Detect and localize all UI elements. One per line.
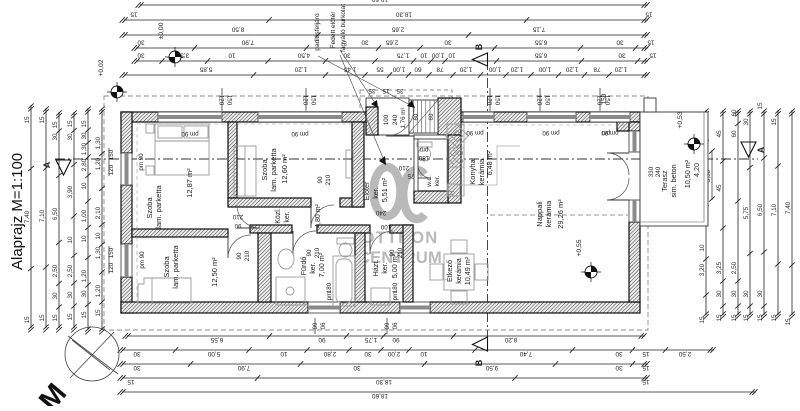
svg-text:30: 30 — [743, 290, 750, 298]
room label Szoba 12,50 — [162, 244, 219, 288]
door utility — [370, 231, 393, 254]
window kitchen top — [463, 112, 494, 122]
svg-text:90: 90 — [234, 222, 241, 229]
svg-text:30: 30 — [616, 38, 624, 45]
svg-text:7,15: 7,15 — [532, 25, 545, 32]
svg-text:150: 150 — [108, 149, 115, 160]
svg-text:Étkező: Étkező — [445, 260, 454, 282]
svg-text:kerámia: kerámia — [544, 200, 553, 228]
svg-text:10: 10 — [67, 236, 74, 244]
wall exterior left lower — [121, 277, 132, 313]
dim line left 5 — [95, 106, 105, 334]
svg-text:Szoba: Szoba — [162, 256, 171, 278]
bathroom shower — [276, 277, 305, 305]
svg-text:6,55: 6,55 — [210, 336, 223, 343]
svg-text:35: 35 — [368, 87, 375, 94]
room label Konyha — [468, 150, 494, 185]
room label Szoba 12,60 — [260, 147, 289, 191]
svg-text:10,50 m²: 10,50 m² — [683, 159, 692, 188]
washing machine utility — [371, 288, 390, 305]
wall utility east — [403, 225, 413, 302]
wall exterior top-right corner block — [617, 122, 640, 131]
svg-text:210: 210 — [398, 164, 409, 171]
svg-text:pm 90: pm 90 — [139, 251, 146, 269]
wall exterior bottom right segment — [430, 302, 640, 313]
svg-text:45: 45 — [716, 130, 723, 138]
svg-text:15: 15 — [52, 121, 59, 129]
svg-text:3,20: 3,20 — [699, 263, 706, 276]
dashed finish line bedroom1 — [137, 124, 228, 229]
elevation marker — [581, 262, 601, 282]
svg-text:100: 100 — [380, 223, 391, 230]
wardrobe bedroom3 — [138, 278, 191, 303]
section marker B bottom — [473, 337, 488, 366]
terrace inner line — [640, 112, 704, 222]
room label Etkezo — [445, 256, 472, 285]
svg-text:15: 15 — [757, 102, 764, 110]
svg-text:240: 240 — [392, 114, 399, 125]
svg-text:Alaprajz M=1:100: Alaprajz M=1:100 — [9, 153, 26, 270]
door dim 60/90 — [383, 318, 398, 334]
elevation marker — [165, 47, 185, 67]
window dim 120/150 — [596, 88, 611, 111]
svg-text:120: 120 — [108, 164, 115, 175]
svg-text:2,65: 2,65 — [391, 25, 404, 32]
wc toilet — [417, 142, 432, 161]
svg-text:60: 60 — [414, 65, 422, 72]
svg-text:1,00: 1,00 — [81, 209, 88, 222]
room label Hazt — [371, 253, 399, 278]
section line A-A — [55, 158, 758, 160]
svg-text:Közl.: Közl. — [275, 208, 282, 224]
svg-text:1,00: 1,00 — [431, 51, 444, 58]
terrace opening dim 3,30 — [705, 148, 715, 201]
svg-text:w.c.: w.c. — [426, 175, 433, 188]
svg-text:lam. parketta: lam. parketta — [154, 184, 163, 228]
window dim 120/150 — [302, 88, 317, 111]
svg-text:30: 30 — [81, 132, 88, 140]
svg-text:30: 30 — [716, 290, 723, 298]
svg-text:30: 30 — [67, 291, 74, 299]
svg-text:2,50: 2,50 — [731, 261, 738, 274]
svg-text:padlásfeljáró: padlásfeljáró — [314, 13, 321, 51]
svg-text:8,20: 8,20 — [504, 336, 517, 343]
section marker A left — [42, 160, 71, 175]
wall bedroom2 south east part — [340, 198, 364, 207]
door bedroom2 — [311, 205, 334, 228]
svg-text:1,20: 1,20 — [294, 65, 307, 72]
svg-text:12,60 m²: 12,60 m² — [280, 154, 289, 184]
svg-text:6,55: 6,55 — [534, 38, 547, 45]
wall wc south — [414, 191, 448, 203]
window label pm 90 left2 — [139, 251, 146, 269]
svg-text:35: 35 — [396, 87, 403, 94]
svg-text:30: 30 — [137, 38, 145, 45]
roof eaves dashed outline — [104, 96, 648, 330]
svg-text:Szoba: Szoba — [260, 159, 269, 181]
dim line right 6 — [771, 108, 781, 321]
svg-text:Fürdő: Fürdő — [299, 257, 308, 276]
wall exterior right top stub — [629, 122, 640, 131]
svg-text:2,00: 2,00 — [387, 350, 400, 357]
bed bedroom1 — [146, 124, 209, 175]
porch roof dashed — [360, 90, 452, 112]
svg-text:210: 210 — [244, 250, 251, 261]
door entry — [386, 108, 414, 136]
room label Elotter — [362, 177, 389, 202]
svg-text:7,40: 7,40 — [785, 201, 792, 214]
dim line bottom 4 — [118, 375, 650, 385]
svg-text:7,10: 7,10 — [39, 209, 46, 222]
room label Szoba 12,87 — [145, 168, 194, 229]
svg-text:3,25: 3,25 — [716, 261, 723, 274]
dim line right 7 — [785, 108, 795, 325]
svg-text:2,50: 2,50 — [67, 264, 74, 277]
svg-text:100: 100 — [383, 114, 390, 125]
svg-text:18,60: 18,60 — [372, 392, 388, 399]
svg-text:1,76 m²: 1,76 m² — [400, 108, 407, 129]
elevation marker — [684, 134, 704, 154]
door wc — [418, 165, 431, 178]
svg-text:30: 30 — [137, 51, 145, 58]
svg-text:15: 15 — [642, 364, 650, 371]
svg-text:18,30: 18,30 — [396, 10, 412, 17]
wall wc west thin — [414, 135, 418, 191]
svg-text:120: 120 — [302, 95, 309, 106]
svg-text:6,50: 6,50 — [52, 207, 59, 220]
elevation marker — [107, 82, 127, 102]
svg-text:2,65: 2,65 — [385, 38, 398, 45]
dim line bottom 3 — [118, 361, 650, 371]
svg-text:15: 15 — [24, 116, 31, 124]
svg-text:15: 15 — [95, 309, 102, 317]
svg-text:pm 90: pm 90 — [542, 129, 560, 136]
svg-text:30: 30 — [364, 350, 372, 357]
svg-text:210: 210 — [325, 174, 332, 185]
svg-text:ker.: ker. — [434, 175, 441, 186]
room label WC — [426, 175, 441, 188]
label padlasfeljaro — [314, 13, 415, 108]
svg-text:210: 210 — [397, 247, 404, 258]
svg-text:150: 150 — [494, 95, 501, 106]
wardrobe bedroom2 — [234, 146, 353, 196]
wall exterior bottom left segment — [121, 302, 308, 313]
svg-text:15: 15 — [649, 51, 657, 58]
svg-text:60: 60 — [413, 113, 420, 120]
entry south opening labels — [375, 209, 391, 230]
window label pm 90 left1 — [138, 153, 145, 171]
dim line right 3 — [731, 108, 741, 321]
dim line right 4 — [743, 108, 753, 321]
svg-text:Fedett előtér: Fedett előtér — [330, 11, 337, 49]
svg-text:180: 180 — [326, 282, 333, 293]
room label Kozl — [275, 203, 322, 227]
svg-text:45: 45 — [716, 184, 723, 192]
svg-text:fagyálló burkolat: fagyálló burkolat — [340, 4, 347, 52]
porch pier right — [438, 98, 461, 135]
window dining right lower — [629, 200, 640, 222]
wall exterior left upper — [121, 112, 132, 153]
kitchen counter — [446, 124, 520, 196]
svg-text:1,20: 1,20 — [565, 65, 578, 72]
svg-text:Házt.: Házt. — [371, 260, 380, 277]
section line B-B — [487, 60, 489, 345]
dashed finish line living — [461, 124, 629, 126]
svg-text:15: 15 — [645, 10, 653, 17]
door terrace lower leaf — [607, 178, 629, 200]
svg-text:12,87 m²: 12,87 m² — [185, 168, 194, 198]
svg-text:Konyha: Konyha — [468, 158, 477, 184]
svg-text:30: 30 — [353, 364, 361, 371]
svg-text:B: B — [474, 359, 484, 366]
svg-text:15: 15 — [130, 10, 138, 17]
svg-text:1,30: 1,30 — [95, 246, 102, 259]
svg-text:90: 90 — [392, 336, 400, 343]
wall corridor south 3 — [390, 225, 413, 233]
svg-text:30: 30 — [743, 118, 750, 126]
svg-text:30: 30 — [615, 364, 623, 371]
dim line top 4 7,90 — [132, 38, 655, 50]
svg-text:210: 210 — [314, 247, 321, 258]
svg-text:60: 60 — [311, 323, 318, 330]
svg-text:180: 180 — [392, 282, 399, 293]
svg-text:60: 60 — [383, 323, 390, 330]
svg-text:15: 15 — [81, 311, 88, 319]
svg-text:sim. beton: sim. beton — [669, 164, 678, 197]
svg-text:6,55: 6,55 — [534, 51, 547, 58]
svg-text:15: 15 — [642, 378, 650, 385]
svg-text:240: 240 — [655, 166, 662, 177]
svg-text:60: 60 — [731, 130, 738, 138]
window utility bottom — [400, 302, 430, 313]
dim line top 2 18,30 — [120, 10, 653, 22]
porch labels — [383, 108, 435, 129]
svg-text:150: 150 — [544, 95, 551, 106]
svg-text:30: 30 — [361, 38, 369, 45]
door label bedroom1 — [232, 213, 243, 229]
svg-text:8,50: 8,50 — [231, 25, 244, 32]
svg-text:60: 60 — [731, 109, 738, 117]
section marker B top — [473, 43, 488, 66]
svg-text:30: 30 — [133, 350, 141, 357]
dim line left 3 — [67, 110, 77, 332]
svg-text:30: 30 — [757, 290, 764, 298]
svg-text:90: 90 — [389, 249, 396, 256]
wall bedroom1/bedroom2 — [228, 122, 237, 198]
dim line left 1 — [39, 106, 49, 332]
svg-text:6,50: 6,50 — [757, 203, 764, 216]
svg-text:1,00: 1,00 — [538, 65, 551, 72]
svg-text:15: 15 — [699, 316, 706, 324]
window bedroom3 left — [121, 244, 132, 277]
dim line left 0 — [24, 103, 34, 332]
svg-text:pm 90: pm 90 — [466, 129, 484, 136]
svg-text:H: H — [450, 191, 456, 195]
svg-text:ker.: ker. — [380, 262, 389, 274]
bathroom washbasin — [278, 249, 294, 269]
bathroom toilet — [337, 238, 354, 257]
svg-text:1,00: 1,00 — [392, 65, 405, 72]
svg-text:+0,55: +0,55 — [576, 239, 583, 256]
svg-text:30: 30 — [615, 350, 623, 357]
svg-text:180: 180 — [418, 154, 429, 161]
svg-text:30: 30 — [618, 51, 626, 58]
svg-text:4,50: 4,50 — [297, 51, 310, 58]
door label utility — [389, 247, 404, 258]
svg-text:15: 15 — [39, 314, 46, 322]
svg-text:15: 15 — [81, 120, 88, 128]
svg-text:120: 120 — [218, 95, 225, 106]
svg-text:ker.: ker. — [308, 262, 317, 274]
porch width labels 35 15 35 — [368, 87, 403, 94]
svg-text:29,26 m²: 29,26 m² — [556, 199, 565, 229]
dim line top 5 3,30 — [132, 51, 657, 63]
dining table and chairs — [430, 240, 488, 304]
compass north symbol — [65, 327, 119, 381]
svg-text:7,10: 7,10 — [771, 203, 778, 216]
svg-text:30: 30 — [444, 38, 452, 45]
label fagyallo burkolat — [340, 4, 378, 108]
svg-text:15: 15 — [647, 38, 655, 45]
window dim 120/150 — [218, 88, 233, 111]
svg-text:ker.: ker. — [284, 211, 291, 222]
svg-text:18,30: 18,30 — [376, 378, 392, 385]
door dim 60/90 — [311, 318, 326, 334]
svg-text:15: 15 — [39, 116, 46, 124]
wall exterior right lower — [629, 222, 640, 302]
svg-text:10: 10 — [420, 51, 428, 58]
svg-text:15: 15 — [771, 314, 778, 322]
svg-text:90: 90 — [317, 176, 324, 183]
dim line top 3 8,50 — [120, 25, 650, 37]
room label Nappali — [535, 199, 565, 229]
svg-text:5,85: 5,85 — [199, 65, 212, 72]
wall wc north thin — [414, 135, 448, 139]
svg-text:3,90: 3,90 — [67, 185, 74, 198]
svg-text:1,00: 1,00 — [488, 65, 501, 72]
svg-text:A: A — [756, 146, 766, 153]
wall bedroom1/bedroom3 — [132, 229, 228, 237]
door label bathroom — [306, 247, 321, 258]
svg-text:15: 15 — [716, 314, 723, 322]
svg-text:1,20: 1,20 — [95, 284, 102, 297]
svg-text:15: 15 — [642, 350, 650, 357]
window label pm 180 bottom2 — [392, 282, 399, 300]
svg-text:15: 15 — [67, 313, 74, 321]
door bedroom1 — [237, 205, 260, 228]
window dim 150/120 left — [108, 148, 115, 176]
window bathroom bottom — [308, 302, 340, 313]
svg-text:5,51 m²: 5,51 m² — [380, 177, 389, 202]
room label Terasz — [660, 159, 701, 197]
svg-text:10: 10 — [95, 232, 102, 240]
dim line right 5 — [757, 102, 767, 322]
terrace outline — [640, 112, 708, 226]
svg-text:55: 55 — [376, 65, 384, 72]
porch floor outline — [366, 98, 409, 135]
svg-text:1,20: 1,20 — [81, 269, 88, 282]
svg-text:10: 10 — [81, 235, 88, 243]
svg-text:30: 30 — [731, 290, 738, 298]
window living top 1 — [527, 112, 576, 122]
svg-text:30: 30 — [133, 364, 141, 371]
svg-text:1,30: 1,30 — [95, 136, 102, 149]
svg-text:150: 150 — [601, 93, 608, 104]
dim line bottom 2 — [118, 347, 716, 357]
bathtub — [333, 256, 355, 306]
svg-text:30: 30 — [52, 133, 59, 141]
svg-text:78: 78 — [436, 65, 444, 72]
svg-text:±0,00: ±0,00 — [158, 22, 165, 39]
wall exterior top right segment — [443, 112, 640, 122]
svg-text:1,20: 1,20 — [459, 65, 472, 72]
svg-text:210: 210 — [232, 213, 243, 220]
dashed finish line bedroom3 — [136, 237, 138, 302]
terrace pillar — [644, 98, 656, 112]
svg-text:75: 75 — [407, 172, 414, 179]
svg-text:1,20: 1,20 — [95, 157, 102, 170]
svg-text:7,90: 7,90 — [241, 38, 254, 45]
svg-text:15: 15 — [771, 118, 778, 126]
wall exterior top left segment — [121, 112, 378, 122]
svg-text:240: 240 — [375, 209, 386, 216]
dashed finish line bedroom2 — [237, 123, 352, 125]
svg-text:2,10: 2,10 — [95, 206, 102, 219]
dim line right 2 — [716, 108, 726, 321]
door bathroom — [293, 231, 316, 254]
svg-text:pm: pm — [420, 146, 429, 153]
svg-text:4,20: 4,20 — [692, 163, 701, 177]
svg-text:10: 10 — [448, 51, 456, 58]
svg-text:90: 90 — [236, 252, 243, 259]
svg-text:6,48 m²: 6,48 m² — [485, 150, 494, 175]
svg-text:60: 60 — [428, 113, 435, 120]
svg-text:lam. parketta: lam. parketta — [171, 244, 180, 288]
dim line top 1 18,60 — [136, 0, 650, 8]
svg-text:1,75: 1,75 — [364, 336, 377, 343]
svg-text:B: B — [474, 43, 484, 50]
dashed ridge line living room — [490, 214, 628, 216]
dim line right 1 — [699, 108, 709, 323]
svg-text:90: 90 — [319, 323, 326, 330]
svg-text:7,40: 7,40 — [519, 350, 532, 357]
svg-text:1,20: 1,20 — [510, 65, 523, 72]
svg-text:Nappali: Nappali — [535, 201, 544, 227]
window living right upper — [629, 131, 640, 152]
svg-text:1,75: 1,75 — [396, 51, 409, 58]
door terrace upper leaf — [607, 153, 629, 175]
svg-text:10: 10 — [280, 350, 288, 357]
svg-text:2,50: 2,50 — [678, 350, 691, 357]
svg-text:2,50: 2,50 — [52, 264, 59, 277]
svg-text:90: 90 — [391, 323, 398, 330]
svg-text:pm 90: pm 90 — [138, 153, 145, 171]
svg-text:10,49 m²: 10,49 m² — [463, 256, 472, 285]
door label entry — [398, 164, 414, 179]
svg-text:ker.: ker. — [371, 187, 380, 199]
wall bedroom2 south west part — [228, 198, 311, 207]
door label terrace — [648, 166, 662, 177]
wall wc east — [448, 135, 461, 203]
svg-text:30: 30 — [67, 133, 74, 141]
door label bedroom2 — [317, 174, 332, 185]
svg-text:5,75: 5,75 — [743, 206, 750, 219]
svg-text:pm 90: pm 90 — [181, 130, 199, 137]
wall bathroom/utility — [355, 233, 365, 302]
svg-text:150: 150 — [226, 95, 233, 106]
svg-text:pm 90: pm 90 — [291, 130, 309, 137]
attic ladder padlasfeljaro — [409, 100, 438, 133]
